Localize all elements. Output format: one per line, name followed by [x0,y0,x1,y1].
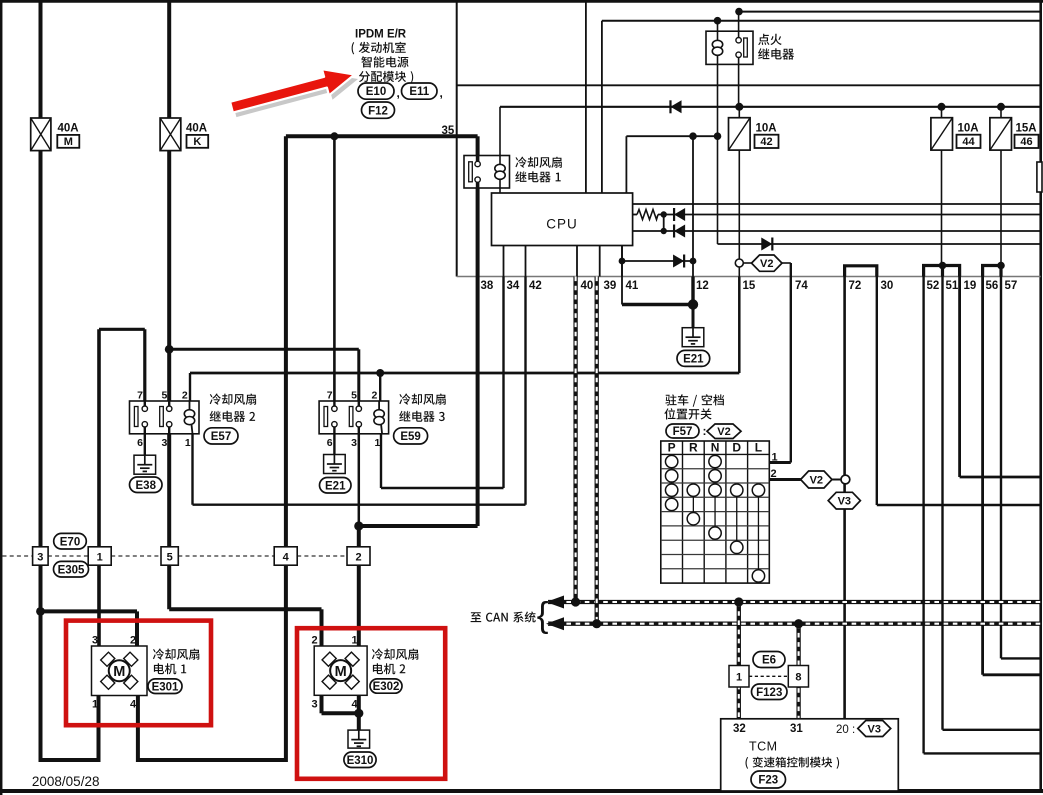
svg-text:5: 5 [167,551,173,563]
svg-text:6: 6 [137,437,143,449]
svg-text:56: 56 [986,280,999,292]
svg-text:,: , [440,86,443,100]
svg-text::: : [703,424,707,438]
svg-text:1: 1 [185,437,191,449]
svg-text:1: 1 [97,551,103,563]
svg-text:E21: E21 [325,480,346,492]
svg-text:32: 32 [733,723,746,735]
svg-text:72: 72 [849,280,862,292]
svg-text:39: 39 [604,280,617,292]
svg-text:V2: V2 [760,258,773,270]
svg-text:40A: 40A [58,123,79,135]
svg-text:7: 7 [327,389,333,401]
svg-text:1: 1 [772,452,778,464]
svg-text:2: 2 [311,635,317,647]
svg-text:L: L [755,441,762,455]
svg-text:12: 12 [696,280,709,292]
svg-text:V3: V3 [838,496,851,508]
svg-text:TCM: TCM [749,740,778,754]
svg-text:40A: 40A [186,123,207,135]
svg-text:M: M [335,664,347,680]
svg-text:E10: E10 [366,86,386,98]
svg-text:51: 51 [946,280,959,292]
svg-text:44: 44 [962,136,975,148]
svg-text:E310: E310 [347,755,374,767]
svg-text:4: 4 [130,699,137,711]
svg-text:20 :: 20 : [836,724,855,736]
svg-text:V2: V2 [717,426,730,438]
svg-text:E305: E305 [58,564,85,576]
svg-text:2: 2 [371,389,377,401]
svg-text:5: 5 [351,389,357,401]
svg-text:P: P [668,441,676,455]
svg-text:E6: E6 [762,655,776,667]
svg-text:F12: F12 [368,105,388,117]
svg-text:1: 1 [92,699,98,711]
svg-text:D: D [732,441,741,455]
svg-text:3: 3 [311,699,317,711]
svg-text:3: 3 [162,437,168,449]
svg-text:3: 3 [351,437,357,449]
svg-text:,: , [397,86,400,100]
svg-text:38: 38 [481,280,494,292]
svg-text:34: 34 [507,280,520,292]
svg-text:IPDM E/R: IPDM E/R [355,29,407,41]
svg-text:1: 1 [351,635,357,647]
svg-text:7: 7 [137,389,143,401]
svg-text:74: 74 [795,280,808,292]
svg-text:3: 3 [37,551,43,563]
svg-text:4: 4 [283,551,290,563]
svg-text:46: 46 [1020,136,1032,148]
svg-text:19: 19 [964,280,977,292]
svg-text:10A: 10A [756,123,777,135]
svg-text:K: K [193,136,201,148]
svg-text:3: 3 [92,635,98,647]
svg-text:E38: E38 [136,480,157,492]
svg-text:F57: F57 [673,426,693,438]
svg-text:5: 5 [162,389,168,401]
svg-text:57: 57 [1005,280,1018,292]
svg-text:E70: E70 [60,536,80,548]
svg-text:42: 42 [529,280,542,292]
svg-text:V3: V3 [868,723,881,735]
svg-text:2: 2 [130,635,136,647]
svg-text:35: 35 [442,125,455,137]
svg-text:42: 42 [760,136,772,148]
svg-text:15: 15 [743,280,756,292]
svg-text:2008/05/28: 2008/05/28 [32,774,100,789]
svg-text:10A: 10A [958,123,979,135]
svg-text:2: 2 [182,389,188,401]
svg-text:52: 52 [927,280,940,292]
svg-text:40: 40 [581,280,594,292]
svg-text:1: 1 [736,672,742,684]
svg-text:V2: V2 [810,474,823,486]
svg-text:E11: E11 [409,86,429,98]
svg-text:M: M [113,664,125,680]
svg-text:E301: E301 [152,681,179,693]
svg-text:F23: F23 [758,775,778,787]
svg-text:6: 6 [327,437,333,449]
svg-text:15A: 15A [1016,123,1037,135]
svg-text:CPU: CPU [546,217,578,232]
svg-text:2: 2 [355,551,361,563]
svg-text:M: M [64,136,73,148]
svg-text:4: 4 [351,699,358,711]
svg-text:E57: E57 [211,431,231,443]
svg-text:30: 30 [881,280,894,292]
svg-text:1: 1 [374,437,380,449]
svg-text:41: 41 [626,280,639,292]
svg-text:2: 2 [771,468,777,480]
svg-text:R: R [689,441,698,455]
svg-text:N: N [711,441,720,455]
svg-text:E302: E302 [373,681,400,693]
svg-text:8: 8 [795,672,801,684]
svg-text:E59: E59 [400,431,420,443]
svg-text:{: { [537,596,549,635]
svg-text:E21: E21 [683,354,704,366]
svg-text:F123: F123 [756,687,782,699]
svg-text:31: 31 [790,723,803,735]
